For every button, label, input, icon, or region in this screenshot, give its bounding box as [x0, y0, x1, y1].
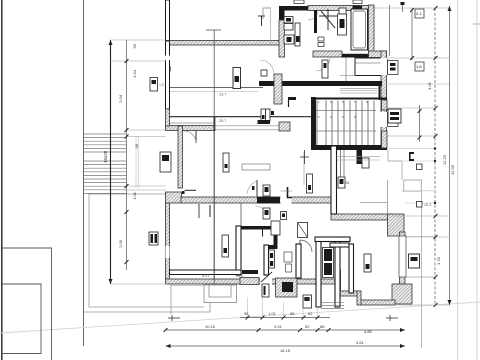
left wall hatched y109-126: [166, 109, 170, 126]
wall top dark x284-308: [284, 6, 308, 11]
wall x316 y240-307: [316, 240, 321, 307]
entry door leaf: [261, 272, 272, 282]
corridor wall y81: [259, 81, 382, 86]
garden rect inner: [2, 284, 41, 354]
stairs treads: [317, 101, 374, 146]
wall y243 x330-349: [330, 243, 349, 247]
east step wall x336 y270-291: [336, 270, 341, 291]
level mark hall: [300, 150, 309, 164]
site boundary left line: [1, 0, 3, 360]
closet room right: [355, 58, 382, 76]
south band y291 x336-360: [336, 291, 360, 296]
right dim texts: [427, 81, 455, 265]
fridge fixture: [233, 68, 241, 89]
svg-text:4.86: 4.86: [364, 329, 373, 334]
door frame block lower: [182, 191, 185, 194]
box left lower: [149, 232, 158, 245]
svg-text:25.7: 25.7: [219, 119, 226, 123]
porch step lines: [321, 302, 344, 308]
terrace edge vertical x171: [170, 284, 172, 314]
radiator hall x307: [307, 174, 313, 193]
left wall y41-109: [166, 41, 170, 109]
interior: line x241: [240, 203, 242, 226]
wall right side hatched x381: [381, 51, 387, 148]
south wall main hatched y279: [166, 279, 337, 284]
stairwell top wall: [311, 98, 387, 100]
handrail double: [135, 136, 137, 188]
svg-text:2.05: 2.05: [118, 239, 123, 248]
right extension lines: [374, 8, 450, 305]
stair panel x387-400: [388, 109, 401, 123]
bottom dim texts: [205, 311, 373, 353]
WC top: [338, 14, 347, 35]
living right wall hatch: [388, 214, 405, 236]
svg-text:2.01: 2.01: [274, 324, 283, 329]
dim line x110: [110, 40, 112, 284]
left wall lower hatched y203-279: [166, 203, 170, 279]
svg-text:12.29: 12.29: [442, 154, 447, 165]
living bottom corner hatch: [392, 284, 412, 304]
meter box below entry: [303, 295, 312, 308]
svg-text:1.01: 1.01: [268, 311, 277, 316]
south band y197 x181-331: [181, 197, 331, 203]
radiator k2: [222, 235, 229, 257]
svg-text:95: 95: [244, 311, 249, 316]
wall stub x274 hatched: [274, 74, 282, 104]
worktop lines right of stairs: [337, 156, 381, 158]
shower cross: [319, 9, 338, 30]
wall x331 y146-214: [331, 146, 337, 214]
wall hatched horiz y41: [166, 41, 283, 46]
wall bath left hatched: [279, 20, 285, 57]
svg-text:13.7: 13.7: [219, 93, 226, 97]
wall x335 y237-307: [335, 237, 340, 307]
window right wall: [399, 236, 406, 277]
living radiator: [364, 254, 371, 272]
svg-text:1.01: 1.01: [132, 191, 137, 200]
extension lines: [111, 40, 168, 284]
bath washbasin: [295, 23, 300, 46]
corridor line y123: [170, 122, 214, 124]
ext verticals to dims: [248, 297, 318, 318]
svg-text:16.15: 16.15: [280, 348, 291, 353]
svg-text:88: 88: [290, 311, 295, 316]
radiator k1: [223, 153, 229, 172]
living north wall hatch y214 x331-392: [331, 214, 392, 220]
svg-text:88: 88: [320, 324, 325, 329]
vest dim ext: [270, 7, 272, 45]
shelf lines below corridor wall: [340, 87, 378, 89]
vest fixtures: [284, 17, 294, 45]
wall x296 bath/entry: [296, 244, 301, 278]
step wall x178: [178, 126, 183, 188]
bottom ticks: [164, 316, 331, 333]
WC fixture column: [269, 250, 275, 268]
svg-text:1.64: 1.64: [132, 69, 137, 78]
svg-text:1.78: 1.78: [436, 256, 441, 265]
panel right of stairs: [362, 158, 369, 168]
gray outline top right: [404, 180, 422, 191]
WC wall y226: [241, 226, 278, 230]
partition x314: [314, 10, 317, 33]
svg-text:90: 90: [132, 43, 137, 48]
stairs mid landing lines: [316, 110, 376, 112]
corner hatch y192: [166, 192, 182, 203]
svg-text:1.2: 1.2: [159, 83, 164, 87]
svg-text:1.18: 1.18: [303, 297, 310, 301]
corridor hatch band: [166, 126, 215, 131]
wall corner hatched y51: [369, 51, 387, 58]
entry pier hatch+dark: [276, 278, 298, 297]
door leaf right 1: [388, 61, 399, 75]
wall y237 x315-350: [315, 237, 350, 242]
speck boxes hall: [281, 212, 287, 220]
bath small fixtures: [284, 252, 292, 262]
wall right top hatched: [369, 5, 375, 52]
dim texts left: [118, 43, 139, 248]
svg-text:10.2: 10.2: [424, 203, 431, 207]
svg-text:2.04: 2.04: [118, 94, 123, 103]
window label box left: [150, 78, 158, 92]
corridor line y116.5: [170, 116, 312, 118]
level tick top left: [258, 15, 265, 17]
EP box: [409, 254, 420, 268]
wall x349 y244-293: [349, 244, 354, 293]
wall top-left vertical double: [166, 0, 170, 41]
corridor band right edge: [214, 117, 216, 131]
svg-text:12.90: 12.90: [450, 164, 455, 175]
svg-text:1.18: 1.18: [342, 181, 349, 185]
wall y51 x313-342: [313, 51, 342, 57]
svg-text:10.16: 10.16: [205, 324, 216, 329]
stairwell right hatched: [382, 100, 388, 110]
corridor wall stub: [288, 97, 296, 100]
svg-text:4.61: 4.61: [356, 340, 365, 345]
step connector x358 y291-305: [357, 291, 361, 305]
door upper corridor: [195, 131, 197, 143]
door leaf right 2: [388, 113, 399, 127]
faint diagonal terrain line: [0, 302, 480, 333]
interior line x215 lower part darker: [213, 131, 215, 279]
svg-text:92: 92: [305, 324, 310, 329]
terrace step outline: [204, 285, 237, 303]
bathtub: [351, 9, 368, 50]
AW box left: [160, 152, 171, 172]
dim line x126.5: [126, 40, 128, 270]
stairs tread numbers: [318, 100, 368, 119]
corridor radiators x263: [263, 185, 270, 196]
entry block hatch: [240, 278, 259, 285]
wall vestibule left dark: [279, 6, 285, 20]
small dim boxes right: [415, 9, 424, 71]
ext line y84 right: [386, 83, 450, 85]
svg-text:4.05: 4.05: [427, 81, 432, 90]
ticks x435: [410, 6, 438, 307]
site faint right lines: [457, 0, 459, 360]
dining table: [242, 164, 270, 170]
right label marks: [409, 152, 414, 161]
kitchen appliances x259: [261, 70, 270, 121]
door arc lower: [300, 240, 312, 252]
grid line x215: [213, 30, 215, 284]
room labels: [202, 119, 431, 301]
door arc top: [308, 10, 318, 20]
WC door leaf: [262, 230, 264, 237]
WC inner walls: [264, 245, 278, 249]
dim ticks x126.5: [125, 59, 129, 264]
washbasin pair: [318, 37, 324, 41]
level marks bottom: [168, 315, 398, 321]
door frame block left wall: [165, 66, 171, 72]
WC fixtures lower: [271, 221, 280, 235]
svg-text:2.1: 2.1: [416, 11, 422, 16]
door hall upper: [256, 180, 258, 197]
terrace outline gray: [84, 194, 211, 312]
svg-text:90: 90: [134, 143, 139, 148]
site line 2: [83, 0, 85, 346]
kitchen counter bar: [258, 120, 271, 124]
svg-text:16x28: 16x28: [103, 150, 108, 163]
door frame mark right: [288, 187, 293, 198]
top tiny boxes: [294, 0, 362, 4]
right side gray outline: [388, 149, 422, 348]
thin line x346: [345, 58, 347, 82]
WC left wall: [236, 226, 241, 275]
svg-text:6.01: 6.01: [202, 274, 209, 278]
pipes below stairs: [340, 150, 342, 177]
room line y87.5: [170, 87, 263, 89]
stairwell bottom wall: [311, 145, 387, 150]
svg-text:1.8: 1.8: [416, 64, 422, 69]
south band y300 x360-395: [360, 300, 395, 305]
garden rect outer: [2, 248, 52, 360]
wall top hatched x308-374: [308, 6, 374, 11]
stairwell left wall: [311, 97, 316, 150]
svg-text:16.0: 16.0: [236, 274, 243, 278]
svg-text:62: 62: [308, 311, 313, 316]
room bottom edges y270 x169-241: [170, 270, 242, 275]
duct box below stairs: [338, 177, 345, 188]
corridor band extension: [215, 125, 279, 127]
washer blocks: [323, 248, 334, 278]
